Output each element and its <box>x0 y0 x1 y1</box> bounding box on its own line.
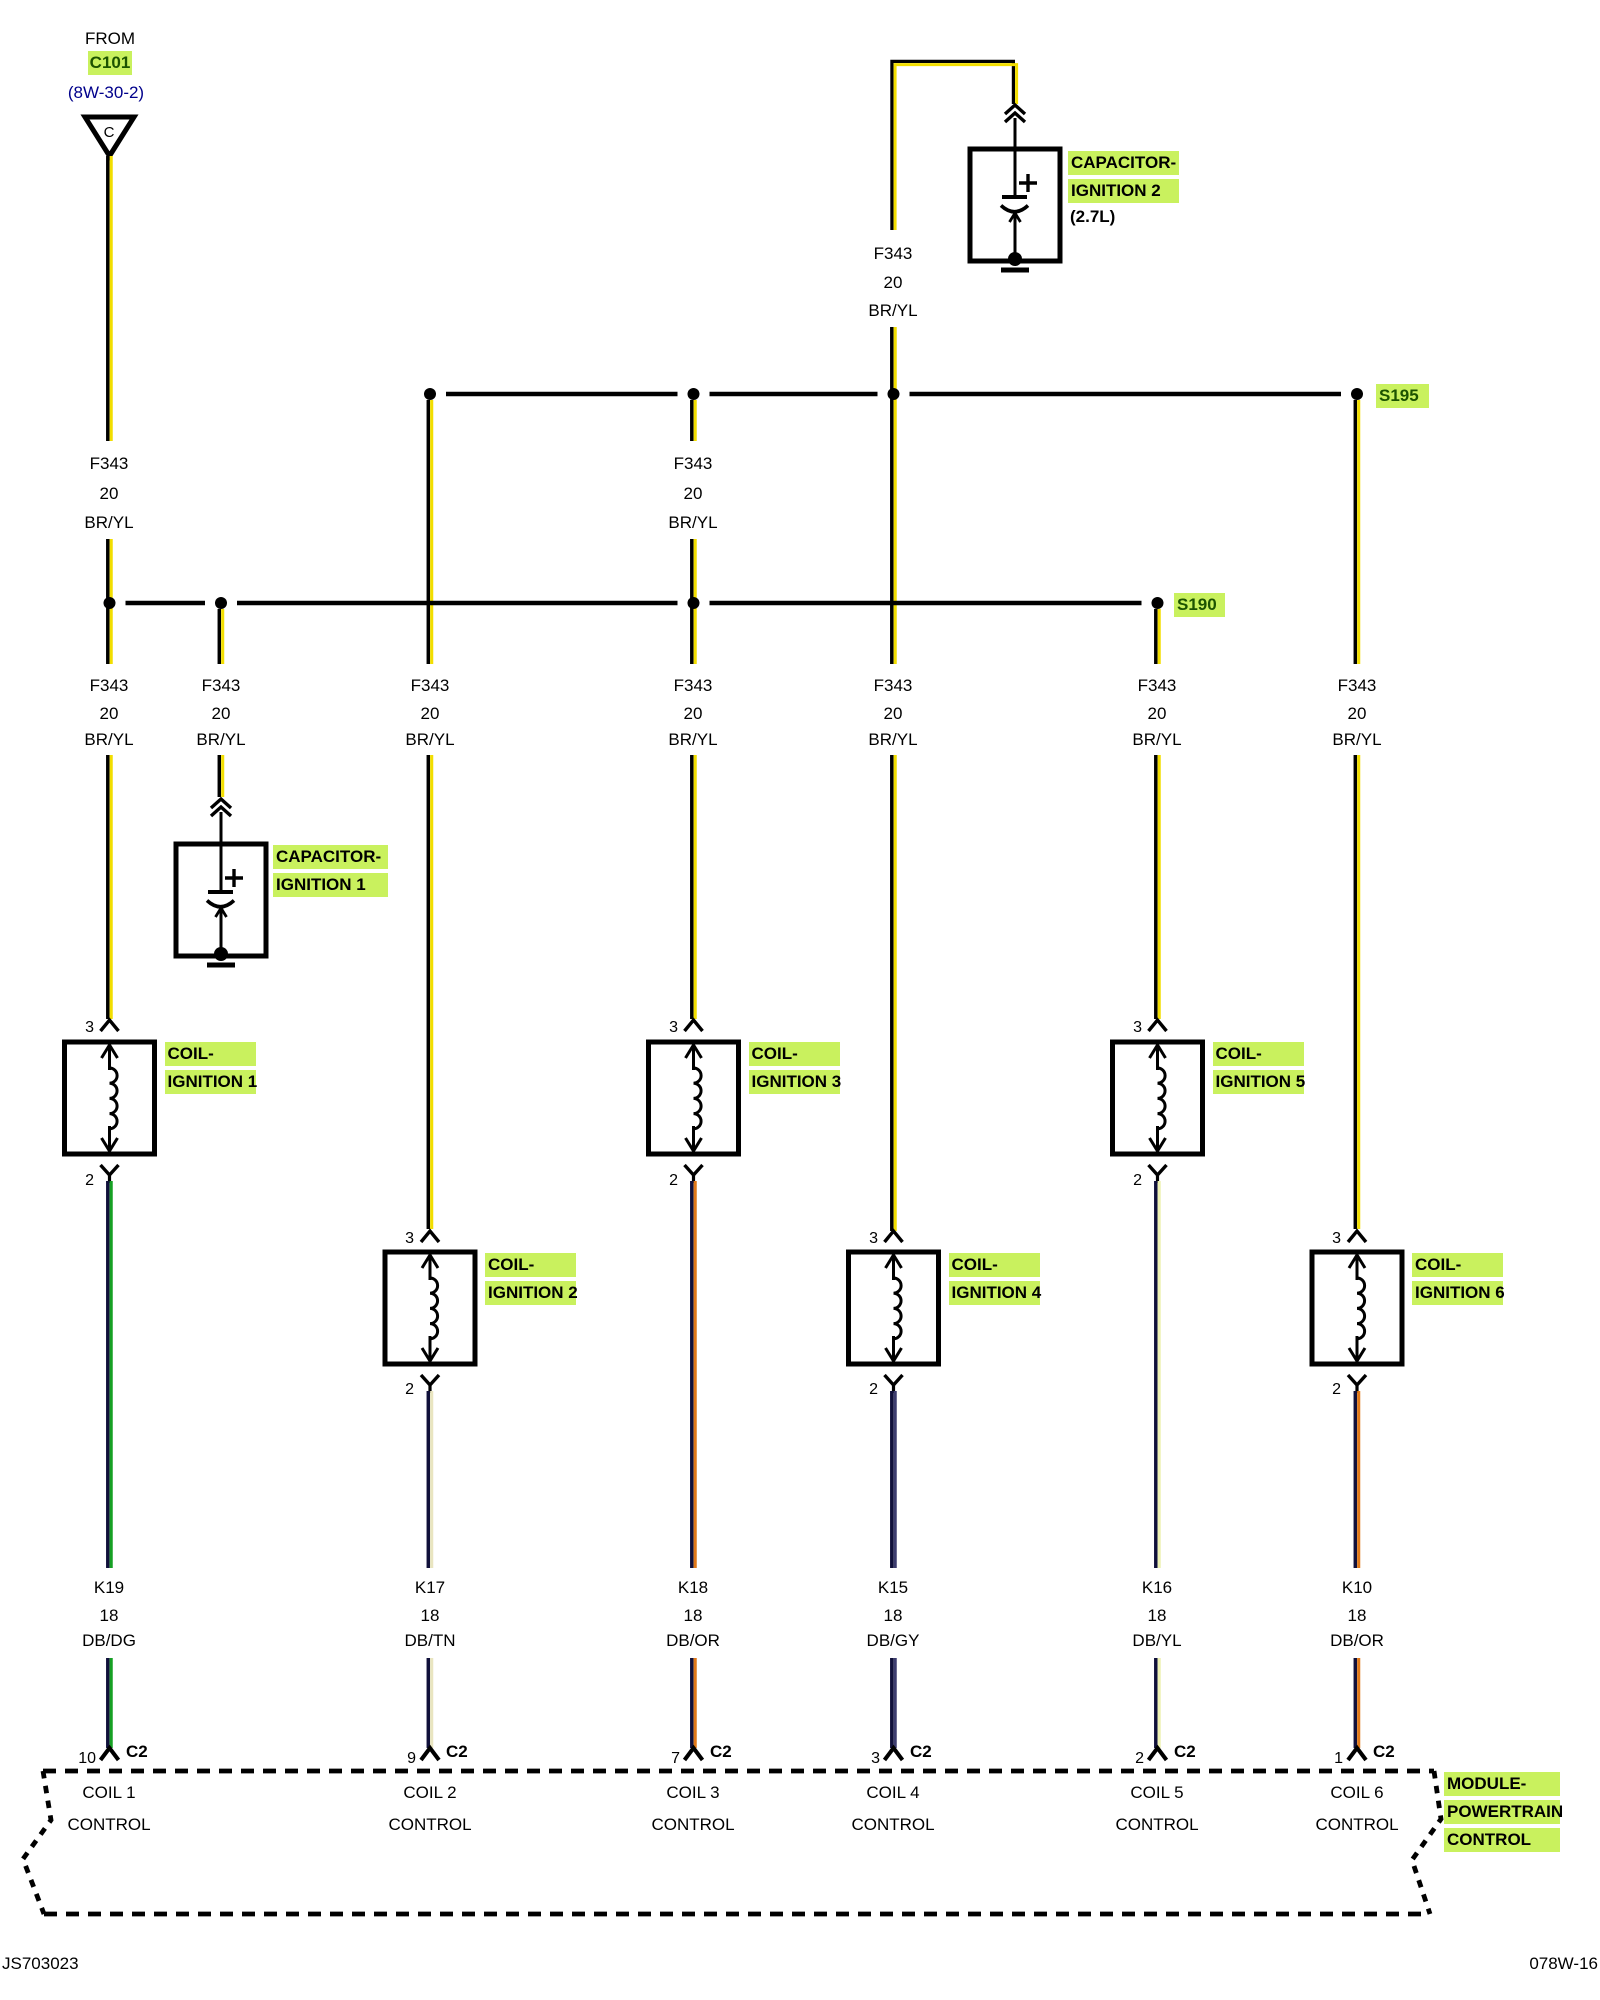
connector C2 pin 2 chevron <box>1149 1748 1167 1760</box>
wire label F343 20 BR/YL column 5 top <box>818 244 968 264</box>
junction dot S190 at column 2 <box>215 597 227 609</box>
coil ignition 6 box with winding symbol <box>1312 1252 1402 1364</box>
wire label F343 20 BR/YL column 4 upper <box>618 454 768 474</box>
footer drawing number JS703023 <box>2 1954 79 1974</box>
coil ignition 5 pin 3 connector chevron <box>1149 1020 1167 1031</box>
coil ignition 3 pin 3 connector chevron <box>685 1020 703 1031</box>
capacitor C2.7L ignition 2 symbol <box>970 147 1060 270</box>
wire K15 DB/GY from coil 4 to PCM pin 3 <box>892 1391 895 1748</box>
capacitor ignition 1 symbol <box>176 842 266 965</box>
coil ignition 1 pin 3 connector chevron <box>101 1020 119 1031</box>
labels coil control functions inside module <box>34 1783 184 1803</box>
label splice S195 <box>1376 384 1429 408</box>
label C inside C101 triangle <box>34 123 184 143</box>
coil ignition 3 pin 2 connector <box>685 1165 703 1183</box>
wire F343 BR/YL column 7 from S195 down to coil 6 pin 3 <box>1355 400 1358 1229</box>
wire F343 BR/YL column 4 from S190 down to coil 3 pin 3 <box>692 606 695 1019</box>
connector C2 pin 7 chevron <box>685 1748 703 1760</box>
connector C101 triangle symbol <box>85 117 134 156</box>
coil ignition 4 box with winding symbol <box>849 1252 939 1364</box>
wire K17 DB/TN from coil 2 to PCM pin 9 <box>428 1391 431 1748</box>
labels coil ignition 1/3/5 with pin numbers <box>62 1018 94 1038</box>
coil ignition 6 pin 3 connector chevron <box>1348 1231 1366 1242</box>
connector C2 pin 3 chevron <box>885 1748 903 1760</box>
wire F343 BR/YL feed to capacitor 2: up and over jog at top <box>892 61 1017 230</box>
wire K10 DB/OR from coil 6 to PCM pin 1 <box>1355 1391 1358 1748</box>
splice bus S195 horizontal wire <box>446 392 1341 397</box>
coil ignition 1 pin 2 connector <box>101 1165 119 1183</box>
coil ignition 6 pin 2 connector <box>1348 1375 1366 1393</box>
wire F343 BR/YL column 5 from S195 down across S190 to coil 4 pin 3 <box>892 398 895 1231</box>
coil ignition 5 box with winding symbol <box>1113 1042 1203 1154</box>
module powertrain control dashed outline <box>23 1771 1441 1914</box>
coil ignition 2 box with winding symbol <box>385 1252 475 1364</box>
junction dot S195 at column 3 <box>424 388 436 400</box>
wire K18 DB/OR from coil 3 to PCM pin 7 <box>692 1181 695 1748</box>
labels coil ignition 2/4/6 with pin numbers <box>382 1229 414 1249</box>
wire K19 DB/DG from coil 1 to PCM pin 10 <box>108 1181 111 1748</box>
wire F343 BR/YL column 4 from S195 to S190 <box>692 400 695 600</box>
connector C2 pin 1 chevron <box>1348 1748 1366 1760</box>
coil ignition 3 box with winding symbol <box>649 1042 739 1154</box>
splice bus S190 horizontal wire <box>126 601 1142 606</box>
label capacitor ignition 1 <box>273 845 388 869</box>
wire F343 BR/YL column 5 from labels down to splice S195 <box>892 327 895 398</box>
wire continuation break symbol above capacitor 2 <box>1005 105 1025 150</box>
junction dot S190 at column 4 <box>688 597 700 609</box>
wire F343 BR/YL column 1 to splice S190 <box>108 539 111 664</box>
wire F343 BR/YL column 3 from S195 down to coil 2 pin 3 <box>428 400 431 1229</box>
label module powertrain control <box>1444 1772 1560 1796</box>
label splice S190 <box>1174 593 1225 617</box>
wire F343 BR/YL column 2 from S190 down to capacitor 1 <box>219 609 222 797</box>
wire F343 BR/YL from C101 down column 1 (upper segment) <box>108 156 111 441</box>
wire labels K-circuit row <box>34 1578 184 1598</box>
coil ignition 5 pin 2 connector <box>1149 1165 1167 1183</box>
connector C2 pin 10 chevron <box>101 1748 119 1760</box>
junction dot S190 right end <box>1152 597 1164 609</box>
connector C2 pin 9 chevron <box>421 1748 439 1760</box>
footer sheet number 078W-16 <box>1510 1954 1598 1974</box>
coil ignition 1 box with winding symbol <box>65 1042 155 1154</box>
junction dot S195 at column 5 <box>888 388 900 400</box>
wire F343 BR/YL column 6 from S190 down to coil 5 pin 3 <box>1156 609 1159 1019</box>
coil ignition 2 pin 3 connector chevron <box>421 1231 439 1242</box>
wire F343 BR/YL column 1 from S190 down to coil 1 pin 3 <box>108 755 111 1019</box>
junction dot S195 right end <box>1351 388 1363 400</box>
coil ignition 4 pin 2 connector <box>885 1375 903 1393</box>
junction dot S195 at column 4 <box>688 388 700 400</box>
label FROM C101 (8W-30-2) <box>35 29 185 49</box>
junction dot S190 at column 1 <box>104 597 116 609</box>
coil ignition 4 pin 3 connector chevron <box>885 1231 903 1242</box>
labels connector C2 pin numbers <box>64 1749 96 1769</box>
coil ignition 2 pin 2 connector <box>421 1375 439 1393</box>
wire K16 DB/YL from coil 5 to PCM pin 2 <box>1156 1181 1159 1748</box>
wire label F343 20 BR/YL column 1 upper <box>34 454 184 474</box>
wire labels F343 20 BR/YL row below S190 <box>34 676 184 696</box>
wire continuation break symbol above capacitor 1 <box>211 799 231 845</box>
label capacitor ignition 2 (2.7L) <box>1068 151 1179 175</box>
